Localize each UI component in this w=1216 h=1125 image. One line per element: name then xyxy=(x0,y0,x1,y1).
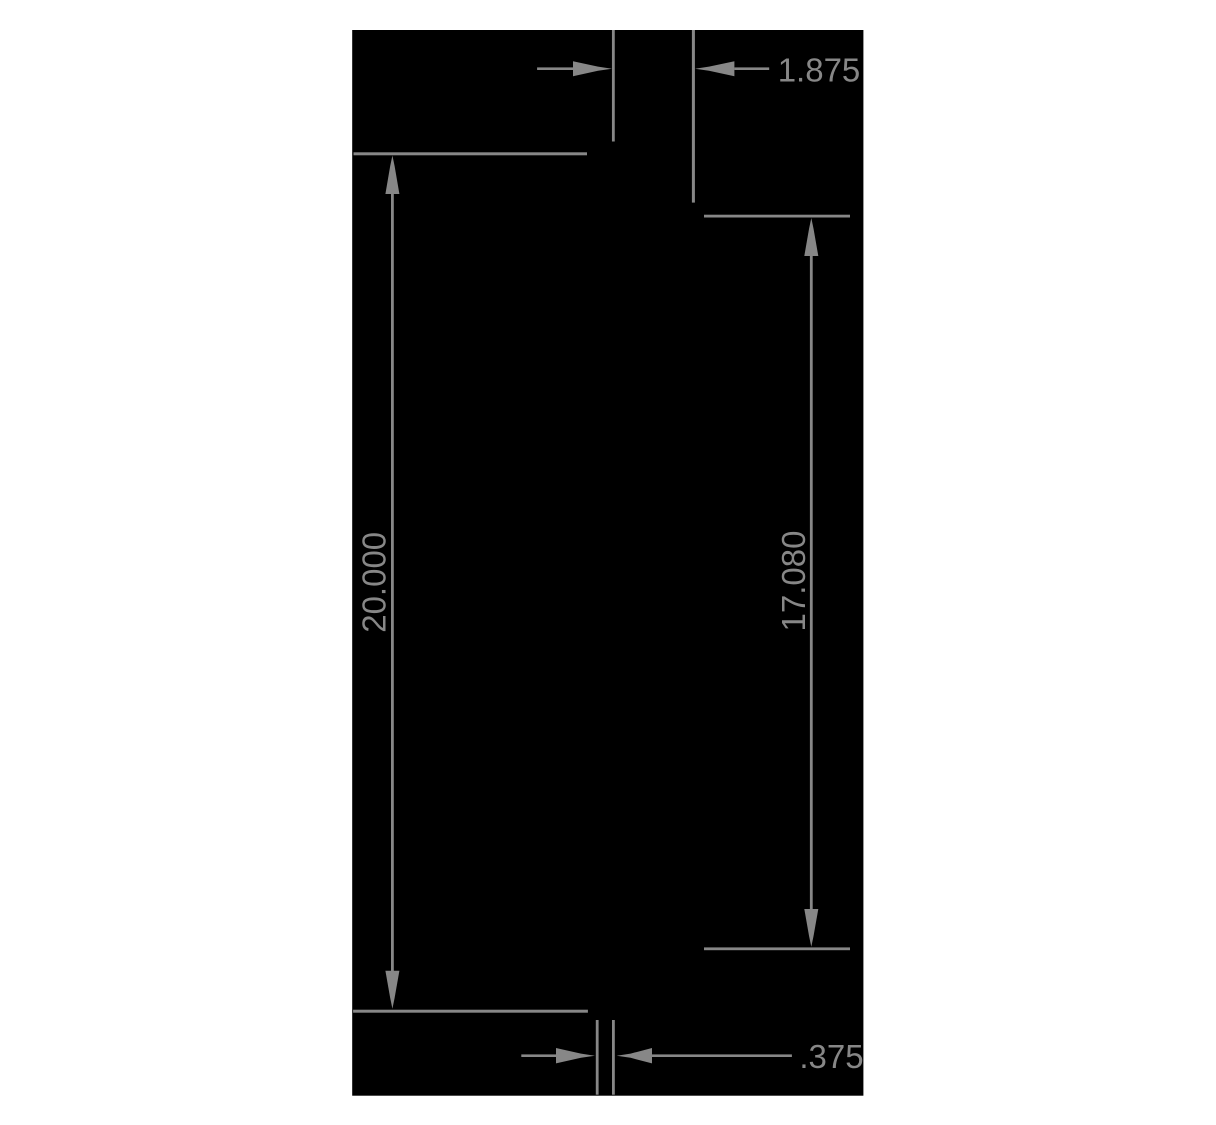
svg-text:1.875: 1.875 xyxy=(778,52,861,89)
svg-text:.375: .375 xyxy=(799,1038,863,1075)
svg-text:17.080: 17.080 xyxy=(775,531,812,632)
svg-text:20.000: 20.000 xyxy=(356,532,393,633)
